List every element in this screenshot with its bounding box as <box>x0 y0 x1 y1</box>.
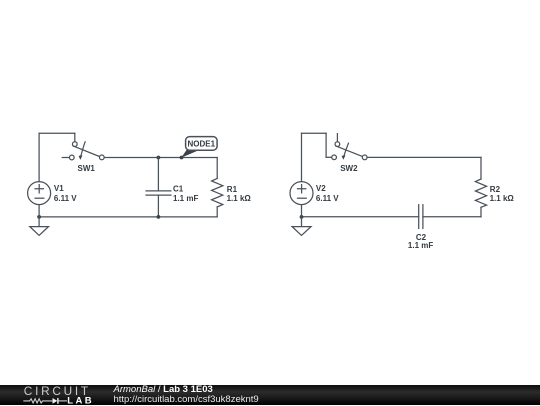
wire V2 top vertical <box>301 133 303 181</box>
wire C2 to V2 bottom <box>302 216 419 218</box>
wire node to C1 <box>157 158 159 191</box>
svg-text:R2: R2 <box>490 185 501 194</box>
junction dot C1 top <box>157 156 161 160</box>
wire R2 bottom <box>480 207 482 217</box>
wire V1 bottom <box>38 205 40 217</box>
voltage source V2 <box>290 182 313 205</box>
voltage source V1 <box>28 182 51 205</box>
label C2 value 1.1 mF <box>408 233 433 250</box>
svg-text:V1: V1 <box>54 184 64 193</box>
svg-text:6.11 V: 6.11 V <box>54 194 77 203</box>
label V2 value 6.11 V <box>316 184 339 203</box>
wire top horizontal to SW1 <box>39 132 75 134</box>
node NODE1 flag <box>181 137 217 158</box>
bottom wire left circuit <box>39 216 217 218</box>
label R2 value 1.1 kOhm <box>490 185 515 203</box>
wire SW1 to node row <box>104 157 217 159</box>
footer bar <box>0 385 540 406</box>
bottom wire right of C2 <box>423 216 481 218</box>
svg-text:C1: C1 <box>173 185 184 194</box>
label V1 value 6.11 V <box>54 184 77 203</box>
wire drop to SW2 left terminal row <box>325 133 327 157</box>
svg-text:SW1: SW1 <box>78 164 96 173</box>
wire node to R1 <box>216 158 218 179</box>
wire to ground left <box>38 217 40 227</box>
resistor R2 <box>475 179 486 207</box>
svg-text:LAB: LAB <box>67 395 94 405</box>
node NODE1 dot <box>180 156 184 160</box>
svg-text:1.1 kΩ: 1.1 kΩ <box>490 194 515 203</box>
svg-text:SW2: SW2 <box>340 164 358 173</box>
junction dot V1 bottom <box>37 215 41 219</box>
capacitor C2 <box>419 205 423 229</box>
wire R1 bottom <box>216 207 218 217</box>
wire stub to SW2 left terminal <box>326 156 332 158</box>
wire SW2 to R2 <box>367 156 481 158</box>
CircuitLab logo <box>0 384 110 405</box>
wire to ground right <box>301 217 303 227</box>
svg-text:V2: V2 <box>316 184 326 193</box>
ground right <box>292 227 311 236</box>
svg-text:R1: R1 <box>227 185 238 194</box>
ground left <box>30 227 49 236</box>
junction dot C1 bottom <box>157 215 161 219</box>
svg-text:6.11 V: 6.11 V <box>316 194 339 203</box>
schematic title <box>114 385 259 406</box>
wire R2 top <box>480 157 482 179</box>
svg-text:1.1 mF: 1.1 mF <box>173 194 198 203</box>
wire V1 top vertical <box>38 133 40 181</box>
wire V2 bottom <box>301 205 303 217</box>
wire C1 bottom <box>157 195 159 217</box>
svg-text:1.1 kΩ: 1.1 kΩ <box>227 194 252 203</box>
wire top horizontal right circuit <box>302 132 327 134</box>
switch SW2 <box>332 134 367 160</box>
label R1 value 1.1 kOhm <box>227 185 252 203</box>
capacitor C1 <box>146 191 171 195</box>
switch SW1 <box>62 142 104 160</box>
label C1 value 1.1 mF <box>173 185 198 203</box>
junction dot V2 bottom <box>300 215 304 219</box>
wire drop to SW1 top terminal <box>74 133 76 141</box>
svg-text:1.1 mF: 1.1 mF <box>408 241 433 250</box>
svg-text:NODE1: NODE1 <box>188 139 216 148</box>
resistor R1 <box>212 178 223 207</box>
